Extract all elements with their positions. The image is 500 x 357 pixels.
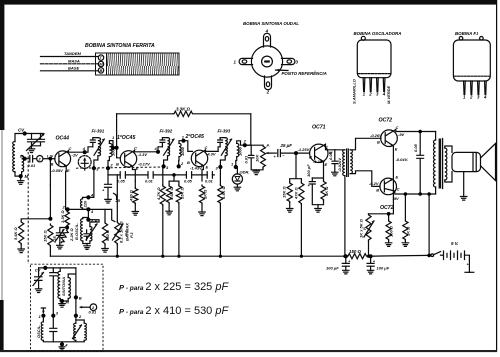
oscillator coil can body <box>357 40 391 78</box>
svg-text:0.01: 0.01 <box>205 179 214 184</box>
svg-text:B: B <box>116 162 119 167</box>
wire osc coil tops <box>83 218 99 227</box>
bias tee 5.6K/15K <box>169 177 179 186</box>
border bottom line <box>0 350 497 352</box>
wire coil bottoms to node M <box>15 172 22 176</box>
battery to ground stub <box>465 255 470 272</box>
resistor 3.3K ohm <box>173 111 193 116</box>
winding from node 2 <box>75 316 77 324</box>
can lug right <box>480 37 484 41</box>
svg-text:OSCIL.: OSCIL. <box>36 325 41 338</box>
oscillator coil secondary <box>90 227 92 241</box>
base wire 1st OC45 <box>117 148 121 158</box>
svg-text:M.VERDE: M.VERDE <box>386 85 391 104</box>
svg-text:100 μF: 100 μF <box>326 265 339 270</box>
Q3 collector <box>196 150 218 156</box>
ground below gang <box>31 146 33 149</box>
svg-text:P.: P. <box>95 219 98 224</box>
output transformer T2 <box>435 132 437 195</box>
dashed AGC line <box>76 167 163 168</box>
node 2 osc <box>66 207 70 211</box>
svg-text:5.6K Ω: 5.6K Ω <box>169 186 174 200</box>
svg-text:100 μF: 100 μF <box>377 265 390 270</box>
svg-text:25 μF: 25 μF <box>280 143 293 148</box>
wire 4.7K to rail <box>162 206 164 257</box>
rail right segment <box>369 254 430 257</box>
svg-text:2: 2 <box>469 95 473 100</box>
wire to OC44 base <box>43 158 55 160</box>
svg-text:OC44: OC44 <box>56 136 70 142</box>
tuning gang section (antenna) <box>28 134 45 146</box>
coupling coil 220 <box>83 197 89 209</box>
svg-text:1K Ω: 1K Ω <box>324 186 329 196</box>
pin 2 <box>471 81 473 95</box>
svg-text:FI-393: FI-393 <box>218 129 231 134</box>
feedback top wire left <box>117 113 173 115</box>
svg-text:FI-392: FI-392 <box>160 129 173 134</box>
svg-text:0.01: 0.01 <box>89 310 98 315</box>
svg-text:E: E <box>396 175 399 180</box>
FI-393 secondary top to node 2 <box>237 141 263 145</box>
svg-text:BASE: BASE <box>68 66 79 71</box>
emitter join wire <box>369 213 394 215</box>
wire from node 3 down to node 4 <box>88 168 94 197</box>
electrolytic 100uF emitter bypass <box>309 178 315 182</box>
wire node4 to cap <box>158 147 162 152</box>
svg-text:S.AMARILLO: S.AMARILLO <box>352 78 357 104</box>
svg-text:4.7K Ω: 4.7K Ω <box>156 186 161 201</box>
Q4 emitter <box>315 156 323 161</box>
can lug left <box>459 37 463 41</box>
svg-text:-1V: -1V <box>72 153 79 158</box>
svg-text:MASA: MASA <box>68 58 80 63</box>
node M <box>19 174 23 178</box>
OC44 emitter with arrow <box>59 161 66 166</box>
svg-text:B: B <box>376 188 379 193</box>
svg-text:1K Ω: 1K Ω <box>202 189 207 199</box>
lug 2 (bottom) <box>265 76 272 90</box>
pin 2 <box>370 78 372 92</box>
winding second right <box>84 323 86 340</box>
osc coil bottom to ground <box>83 241 90 246</box>
wire AGC to 5.6K <box>21 185 50 221</box>
secondary top to upper OC72 base <box>350 138 381 150</box>
supply rail <box>50 255 347 257</box>
svg-text:-9V: -9V <box>398 132 405 137</box>
svg-text:2: 2 <box>368 92 372 97</box>
svg-text:0.01: 0.01 <box>145 179 154 184</box>
svg-text:15K Ω: 15K Ω <box>42 230 47 242</box>
svg-text:C: C <box>134 146 137 151</box>
svg-text:-0.17V: -0.17V <box>138 162 150 167</box>
svg-text:BOBINA OSCILADORA: BOBINA OSCILADORA <box>354 31 402 36</box>
svg-text:15K Ω: 15K Ω <box>281 186 286 198</box>
wire collector rail down <box>428 194 430 255</box>
svg-text:25: 25 <box>115 198 121 203</box>
resistor 15K (bias) <box>287 182 292 202</box>
svg-text:BOBINA F.I: BOBINA F.I <box>455 31 479 36</box>
connector circle 2 <box>37 156 43 162</box>
Q5 emitter <box>385 141 393 146</box>
FI-392 primary bottom to node 3 <box>164 156 168 167</box>
svg-text:C: C <box>325 145 328 150</box>
svg-text:B: B <box>377 140 380 145</box>
wire MASA (dashed) <box>41 63 99 65</box>
pin 1 <box>464 81 466 95</box>
pin 3 <box>478 81 480 95</box>
neutralization wire <box>108 174 214 176</box>
bottom join wire <box>43 340 84 344</box>
resistor 1K <box>199 185 204 204</box>
svg-text:PONTO REFERÊNCIA: PONTO REFERÊNCIA <box>282 71 327 76</box>
feedback wire right vertical <box>245 114 251 145</box>
resistor 15K <box>48 224 53 247</box>
lug 1 (left) <box>239 58 252 64</box>
Q2 emitter <box>125 161 132 166</box>
svg-text:-0.026V: -0.026V <box>337 158 342 172</box>
capacitor 0.05 across primary <box>417 132 424 195</box>
border top black bar <box>0 0 497 5</box>
pin 4 <box>383 78 385 92</box>
svg-text:C: C <box>69 146 72 151</box>
wire 47K to rail <box>300 205 302 257</box>
node B (base tap) <box>23 157 27 161</box>
svg-text:2: 2 <box>266 90 270 95</box>
speaker <box>445 146 452 182</box>
resistor 3.3K <box>65 211 70 227</box>
svg-text:4: 4 <box>483 95 487 100</box>
node 1 <box>86 218 90 222</box>
svg-text:4: 4 <box>265 29 269 34</box>
pin 1 <box>363 78 365 92</box>
border left black bar upper <box>0 0 4 130</box>
border left faint line <box>1 130 3 300</box>
ground below M <box>20 176 22 181</box>
resistor 100 ohm <box>386 220 391 240</box>
gang arrow <box>27 134 45 151</box>
resistor 15K <box>176 185 181 204</box>
switch <box>431 254 434 257</box>
transformer primary bottom to rail <box>344 176 346 257</box>
resistor 150 ohm on rail <box>347 254 367 259</box>
FI-392 secondary top to node 1 <box>179 141 192 152</box>
terminal T <box>98 55 103 60</box>
OC44 collector <box>59 151 85 157</box>
ferrite rod end cap <box>96 53 107 75</box>
svg-text:5.6K Ω: 5.6K Ω <box>13 226 18 240</box>
capacitor 0.01 <box>207 172 212 178</box>
ferrite rod coil L1 <box>107 53 180 75</box>
svg-text:1K Ω: 1K Ω <box>405 226 410 236</box>
capacitor 0.05 <box>120 172 125 178</box>
svg-text:-1.15V: -1.15V <box>313 159 325 164</box>
dashed gang link vertical <box>27 152 29 264</box>
FI-393 secondary bottom to node 1 <box>235 157 238 167</box>
svg-text:0.05: 0.05 <box>184 179 193 184</box>
wire 15K to rail <box>178 204 180 257</box>
svg-text:TANDEM: TANDEM <box>64 51 81 56</box>
top wire <box>39 267 76 269</box>
wire 1.5K to rail <box>219 204 221 256</box>
svg-text:E: E <box>206 165 209 170</box>
svg-text:E: E <box>67 168 70 173</box>
feedback wire left vertical <box>116 114 118 148</box>
antenna coil secondary <box>22 156 24 172</box>
svg-text:BOBINA SINTONIA FERRITA: BOBINA SINTONIA FERRITA <box>85 43 155 49</box>
antenna coil primary <box>13 142 15 172</box>
IF coil can body <box>453 40 490 81</box>
can base dashed line <box>358 73 391 75</box>
pot bottom to ground <box>256 168 263 171</box>
capacitor 0.01 <box>148 172 153 178</box>
capacitor 0.05 collector <box>332 150 338 172</box>
svg-text:ODR.: ODR. <box>240 170 250 175</box>
Q6 emitter (points up to shared rail) <box>385 179 393 184</box>
osc tuning arrow <box>86 224 97 240</box>
svg-text:-1.43V: -1.43V <box>190 165 202 170</box>
svg-text:10K: 10K <box>255 154 260 162</box>
node 3 <box>51 314 55 318</box>
resistor 1K emitter <box>321 181 326 201</box>
svg-text:1000: 1000 <box>238 146 243 156</box>
svg-text:-1.3V: -1.3V <box>138 152 148 157</box>
node M with ground <box>60 299 68 304</box>
Q5 collector <box>385 130 435 136</box>
Q3 emitter <box>196 161 203 166</box>
feedback top wire right <box>195 113 251 115</box>
svg-text:0.01: 0.01 <box>28 163 37 168</box>
transistor Q6 OC72 lower <box>380 178 397 195</box>
svg-text:425: 425 <box>52 236 57 244</box>
FI-391 primary bottom to node 3 <box>94 156 98 168</box>
wire TANDEM <box>41 56 99 58</box>
dashed AGC element circle <box>78 156 91 169</box>
node on collector wire <box>83 150 87 154</box>
wire collector to FI-393 cap <box>218 147 220 152</box>
wire 25uF to OC71 base <box>282 152 310 154</box>
svg-text:-4.3V: -4.3V <box>206 151 216 156</box>
electrolytic 100uF right <box>367 256 374 263</box>
FI-393 primary bottom to node 3 <box>220 156 225 167</box>
svg-text:B: B <box>309 155 312 160</box>
oscillator coil primary <box>81 219 83 241</box>
svg-text:100 μF: 100 μF <box>306 164 311 177</box>
terminal M <box>98 61 103 66</box>
svg-text:P.: P. <box>267 143 270 148</box>
lug 3 (right) <box>282 58 295 64</box>
svg-text:-0.04V.: -0.04V. <box>396 157 409 162</box>
can base dashed line <box>454 75 490 77</box>
node 2 <box>74 314 78 318</box>
FI-392 secondary bottom to node 2 <box>178 157 180 167</box>
bias junction drop <box>290 153 302 182</box>
pot wiper arrow <box>267 152 271 154</box>
secondary bottom to lower OC72 base <box>350 171 380 187</box>
svg-text:470 Ω: 470 Ω <box>129 189 134 202</box>
svg-text:E: E <box>395 147 398 152</box>
svg-text:150 Ω: 150 Ω <box>349 249 362 254</box>
electrolytic 100uF left <box>342 256 349 263</box>
svg-text:BOBINA SINTONIA OUDAL: BOBINA SINTONIA OUDAL <box>243 21 299 26</box>
border left black bar lower <box>0 300 4 352</box>
capacitor from node 3 <box>50 316 57 342</box>
FI-391 secondary bottom to node 2 <box>108 157 109 169</box>
resistor 2.2K diagonal <box>59 229 69 244</box>
wire CV top <box>15 134 43 142</box>
svg-text:OC72: OC72 <box>380 205 394 211</box>
resistor 1.5K <box>219 167 221 185</box>
node 1 with arrow <box>41 314 45 318</box>
detector diode OA79 <box>236 166 238 168</box>
node 4 with ground <box>60 342 64 346</box>
svg-text:3.3K Ω: 3.3K Ω <box>176 107 190 112</box>
tuning coil top view body <box>251 46 282 77</box>
svg-text:SINTONIA: SINTONIA <box>61 277 66 296</box>
svg-text:-1.25V: -1.25V <box>298 147 310 152</box>
can mounting lug <box>361 36 365 40</box>
speaker ground <box>463 172 465 197</box>
svg-text:3.3K Ω: 3.3K Ω <box>60 209 65 223</box>
svg-text:E: E <box>325 162 328 167</box>
Q4 collector <box>315 144 345 150</box>
capacitor 0.01 at pot <box>249 145 257 170</box>
padder capacitor between windings <box>84 230 89 240</box>
svg-text:P.3: P.3 <box>123 230 128 236</box>
svg-text:OC72: OC72 <box>379 118 393 124</box>
svg-text:1.5K Ω: 1.5K Ω <box>221 185 226 199</box>
center slot <box>264 60 270 62</box>
svg-text:B: B <box>20 153 23 158</box>
svg-text:-0.05V: -0.05V <box>51 168 63 173</box>
wire collector to FI-391 cap <box>85 147 93 152</box>
connector circle 2 with arrow <box>90 304 97 311</box>
svg-text:FI-391: FI-391 <box>92 129 105 134</box>
svg-text:B: B <box>187 160 190 165</box>
resistor 4.7K <box>162 167 164 185</box>
svg-text:0.05: 0.05 <box>413 143 418 152</box>
svg-text:47K Ω: 47K Ω <box>294 187 299 200</box>
wire wiper to 25uF <box>271 152 277 154</box>
center hole <box>262 56 273 67</box>
svg-text:-0.2V: -0.2V <box>369 181 379 186</box>
Q2 collector <box>125 150 158 156</box>
svg-text:0.01: 0.01 <box>244 155 249 164</box>
Q6 collector <box>385 189 436 194</box>
wire BASE <box>41 70 99 72</box>
winding from node 1 <box>42 316 44 322</box>
svg-text:0.05: 0.05 <box>328 151 333 160</box>
rail junction dots <box>116 255 119 258</box>
terminal B <box>98 68 103 73</box>
trimmer capacitor 425 <box>56 228 67 246</box>
oscillator main winding B <box>68 278 70 299</box>
svg-text:C: C <box>205 145 208 150</box>
trimmer capacitor <box>35 268 42 289</box>
svg-text:-0.26V: -0.26V <box>370 133 382 138</box>
svg-text:C: C <box>397 187 400 192</box>
svg-text:P.3: P.3 <box>129 232 134 238</box>
resistor 1K <box>404 194 406 220</box>
driver transformer T1 <box>343 150 345 176</box>
svg-text:1000: 1000 <box>180 146 185 156</box>
resistor 47K (bias) <box>299 182 304 205</box>
resistor 5.6K <box>167 185 172 204</box>
capacitor 0.05 <box>186 172 191 178</box>
svg-text:E: E <box>136 166 139 171</box>
svg-text:B: B <box>79 295 82 300</box>
svg-text:C: C <box>396 125 399 130</box>
svg-text:15K Ω: 15K Ω <box>179 187 184 199</box>
pot 5K emitter bias <box>366 214 371 241</box>
svg-text:1ºOC45: 1ºOC45 <box>117 135 135 141</box>
pin 3 <box>377 78 379 92</box>
emitter row wire <box>68 209 115 221</box>
svg-text:9 V.: 9 V. <box>451 241 459 246</box>
wire 15K top up to base line <box>49 159 51 185</box>
trim pot P.3 <box>116 175 118 222</box>
FI-391 secondary top to feedback node <box>109 141 116 148</box>
svg-text:B: B <box>100 68 103 73</box>
svg-text:P.: P. <box>362 227 367 230</box>
series capacitor <box>50 268 57 316</box>
svg-text:B.OSCIL.: B.OSCIL. <box>74 223 79 240</box>
oscillator main winding A <box>58 271 60 298</box>
resistor 5.6K <box>19 221 24 244</box>
resistor 470 ohm <box>134 181 136 188</box>
lug 4 (top) <box>264 33 271 47</box>
svg-text:0.05: 0.05 <box>117 179 126 184</box>
oscillator coil detail dashed box <box>31 264 104 351</box>
border right line <box>496 0 498 351</box>
svg-text:OC71: OC71 <box>312 125 326 131</box>
svg-text:220: 220 <box>82 200 87 208</box>
electrolytic 25uF (AGC) <box>105 168 112 184</box>
svg-text:560 Ω: 560 Ω <box>105 229 110 241</box>
svg-text:100 Ω: 100 Ω <box>389 225 394 237</box>
capacitor 0.01 (base coupling) <box>25 156 37 163</box>
pin 4 <box>485 81 487 95</box>
node 4 <box>156 150 160 154</box>
svg-text:2ºOC45: 2ºOC45 <box>185 134 204 140</box>
right branch node B <box>75 268 77 316</box>
arrow PONTO REFERENCIA <box>276 69 289 72</box>
